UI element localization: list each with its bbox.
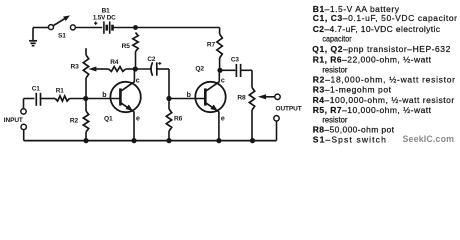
wire output bottom to rail [276,121,278,141]
svg-text:R8–50,000-ohm pot: R8–50,000-ohm pot [313,125,395,135]
svg-text:Q2: Q2 [195,65,204,72]
bottom ground rail [24,140,277,142]
svg-text:Q1: Q1 [104,115,113,122]
potentiometer R8 [237,70,254,140]
input terminal bottom [21,124,26,129]
output terminal bottom [274,116,279,121]
svg-text:C1, C3–0.1-uF, 50-VDC capacito: C1, C3–0.1-uF, 50-VDC capacitor [313,13,457,23]
svg-text:R2–18,000-ohm, ½-watt resistor: R2–18,000-ohm, ½-watt resistor [313,74,455,84]
node rail R6 [166,138,171,143]
svg-text:R4–100,000-ohm, ½-watt resisto: R4–100,000-ohm, ½-watt resistor [313,95,455,105]
node Q2 base / R6 [166,96,171,101]
wire Q2 base [169,98,205,100]
wire input bottom to rail [23,130,25,141]
resistor R5 [122,33,139,70]
svg-text:SeekIC.com: SeekIC.com [403,134,455,144]
transistor Q1 [110,69,140,141]
resistor R4 [88,59,135,72]
svg-text:resistor: resistor [322,64,347,74]
svg-text:c: c [136,78,140,85]
svg-text:OUTPUT: OUTPUT [276,106,302,113]
node top rail / R5 [133,25,138,30]
svg-text:C2–4.7-uF, 10-VDC electrolytic: C2–4.7-uF, 10-VDC electrolytic [313,24,441,34]
resistor R1 [41,87,86,101]
resistor R2 [70,99,89,141]
svg-text:R4: R4 [110,59,119,66]
svg-text:C2: C2 [147,56,155,63]
svg-text:b: b [102,92,106,99]
node R1/R3/R2/Q1 base [83,96,88,101]
svg-text:INPUT: INPUT [4,117,23,124]
svg-text:e: e [221,115,225,122]
resistor R6 [166,99,182,141]
svg-text:c: c [221,78,225,85]
ground [29,28,37,46]
svg-text:Q1, Q2–pnp transistor–HEP-632: Q1, Q2–pnp transistor–HEP-632 [312,44,450,54]
svg-text:e: e [136,115,140,122]
wire Q1 base [86,98,121,100]
potentiometer R3 [71,48,89,98]
node rail Q2 emitter [216,138,221,143]
node rail R2 [83,138,88,143]
output terminal top [275,94,280,99]
node rail R8 [250,138,255,143]
svg-text:b: b [187,92,191,99]
node rail Q1 emitter [131,138,136,143]
svg-text:R5, R7–10,000-ohm, ½-watt: R5, R7–10,000-ohm, ½-watt [313,105,432,115]
svg-text:R3: R3 [71,63,80,70]
svg-text:R1, R6–22,000-ohm, ½-watt: R1, R6–22,000-ohm, ½-watt [313,54,432,64]
svg-text:R3–1-megohm pot: R3–1-megohm pot [313,85,392,95]
node R7/C3/Q2 collector [217,68,222,73]
svg-text:C3: C3 [231,57,239,64]
top rail wire [113,27,220,29]
svg-text:R8: R8 [237,95,246,102]
wire top rail corner to R7 [219,28,221,35]
svg-text:S1–Spst switch: S1–Spst switch [313,134,386,144]
wire input top to C1 [23,99,25,109]
svg-text:C1: C1 [32,85,40,92]
svg-text:R1: R1 [56,87,64,94]
svg-text:1.5V DC: 1.5V DC [93,15,116,22]
wire ground to S1 [33,27,48,29]
svg-text:R7: R7 [207,41,216,48]
svg-text:S1: S1 [58,32,66,39]
svg-text:capacitor: capacitor [322,34,351,44]
battery B1 [93,8,116,34]
capacitor C2 [135,56,169,76]
input terminal top [21,109,26,114]
svg-text:R6: R6 [174,116,183,123]
transistor Q2 [195,69,225,141]
node R5/R4/C2/Q1 collector [133,66,138,71]
svg-text:resistor: resistor [322,115,347,125]
switch S1 [49,15,76,39]
resistor R7 [207,34,222,70]
wire C2 to Q2 base / R6 [168,69,170,99]
wire S1 to battery [75,27,102,29]
svg-text:R5: R5 [122,43,131,50]
R8 wiper arrow [258,94,275,99]
capacitor C1 [32,85,41,105]
svg-text:R2: R2 [70,117,79,124]
capacitor C3 [220,57,252,77]
